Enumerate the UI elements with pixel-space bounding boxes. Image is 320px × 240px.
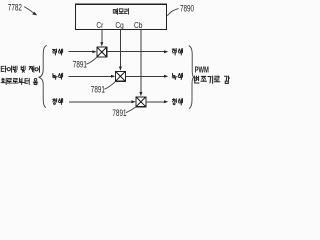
svg-text:PWM: PWM [195,64,209,75]
right brace (to PWM modulator) [189,46,194,109]
wire 녹색 output from multiplier 7891b [125,75,168,78]
leader line to multiplier 7891c [126,107,136,113]
label 7891 (third) [112,108,126,119]
memory block U7890 [76,4,167,29]
wire 청색 input to multiplier 7891c [69,100,136,103]
note text 회로로부터 옴 [1,78,38,84]
note text 변조기로 감 [194,76,229,83]
output label 청색 [172,99,182,105]
label 7891 (first) [73,59,87,70]
multiplier 7891b [116,71,126,81]
wire 적색 input to multiplier 7891a [68,50,96,53]
svg-text:7891: 7891 [73,59,87,70]
input label 청색 [53,99,63,105]
leader line to multiplier 7891b [104,82,115,90]
input label 적색 [53,49,63,55]
svg-text:7782: 7782 [8,2,22,13]
input label 녹색 [53,73,63,79]
svg-text:7891: 7891 [112,108,126,119]
leader line to multiplier 7891a [86,57,96,64]
svg-text:7890: 7890 [180,3,194,14]
svg-text:Cr: Cr [96,20,103,30]
output label 적색 [172,49,182,55]
wire Cg from memory to multiplier 7891b [119,30,122,71]
wire 적색 output from multiplier 7891a [107,50,169,53]
label 7891 (second) [91,84,105,95]
svg-text:7891: 7891 [91,84,105,95]
note text PWM [195,64,209,75]
multiplier 7891c [136,97,146,107]
note text 타이밍 및 제어 [1,66,39,72]
output label 녹색 [172,73,182,79]
wire Cr from memory to multiplier 7891a [100,30,103,47]
pin label Cg [115,20,123,30]
pin label Cr [96,20,103,30]
svg-text:Cb: Cb [134,20,142,30]
label 7782 (figure reference) [8,2,22,13]
label 7890 [180,3,194,14]
wire Cb from memory to multiplier 7891c [139,30,142,97]
svg-text:Cg: Cg [115,20,123,30]
multiplier 7891a [97,47,107,57]
wire 청색 output from multiplier 7891c [146,100,168,103]
left brace (from timing and control circuit) [39,45,47,107]
leader line to 7890 [167,9,178,16]
leader arrow from 7782 [24,7,37,16]
wire 녹색 input to multiplier 7891b [68,75,115,78]
label 메모리 [113,9,128,15]
pin label Cb [134,20,142,30]
